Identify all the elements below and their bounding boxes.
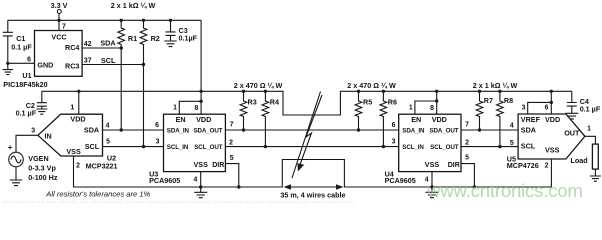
svg-text:R5: R5 [363, 97, 372, 106]
svg-text:5: 5 [230, 155, 234, 162]
svg-text:2: 2 [545, 163, 549, 170]
svg-text:5: 5 [106, 138, 110, 145]
wire 3.3V feed to U3 VDD [200, 20, 202, 114]
svg-text:0.1µF: 0.1µF [179, 33, 198, 42]
resistor R5 [355, 91, 372, 130]
node: SCL/R2 junction [142, 63, 145, 66]
svg-text:C1: C1 [16, 34, 25, 43]
svg-text:PCA9605: PCA9605 [149, 176, 180, 185]
svg-text:OUT: OUT [564, 129, 580, 138]
svg-text:EN: EN [411, 115, 421, 124]
node: 3.3V terminal junction [57, 19, 60, 22]
ground (C3) [164, 41, 176, 47]
wire SDA from U1 pin42 [82, 39, 121, 131]
svg-text:VREF: VREF [521, 115, 541, 124]
node: R3 rail junction [242, 90, 245, 93]
ground (U3 VSS) [194, 187, 207, 198]
svg-text:SCL_IN: SCL_IN [167, 144, 189, 151]
resistor R7 [476, 91, 493, 130]
svg-text:PCA9605: PCA9605 [385, 176, 416, 185]
resistor R2 [140, 20, 160, 64]
svg-text:VSS: VSS [425, 160, 440, 169]
svg-text:U1: U1 [22, 71, 31, 80]
node: R7 SDA junction [478, 128, 481, 131]
svg-text:3: 3 [522, 105, 526, 112]
node: U4 VDD rail junction [435, 90, 438, 93]
svg-text:MCP3221: MCP3221 [86, 161, 118, 170]
svg-text:www.cntronics.com: www.cntronics.com [426, 180, 583, 201]
node: U5 VREF/VDD junction [550, 101, 553, 104]
capacitor C4 [567, 91, 601, 113]
svg-text:5: 5 [510, 140, 514, 147]
wire SDA bus U2 to U3 [103, 129, 164, 131]
svg-text:VGEN: VGEN [28, 154, 48, 163]
svg-text:2: 2 [229, 140, 233, 147]
svg-text:2: 2 [465, 140, 469, 147]
mcu U1 PIC18F45k20 [3, 20, 82, 89]
node: R6 rail junction [382, 90, 385, 93]
svg-text:VSS: VSS [545, 146, 560, 155]
svg-text:VDD: VDD [196, 115, 211, 124]
svg-text:R7: R7 [484, 96, 493, 105]
svg-text:SCL_OUT: SCL_OUT [194, 144, 222, 151]
svg-text:All resistor's tolerances are: All resistor's tolerances are 1% [45, 189, 150, 198]
svg-text:4: 4 [106, 122, 110, 129]
resistor R4 [262, 91, 279, 146]
svg-text:1: 1 [409, 105, 413, 112]
node: U4 EN/VDD junction [435, 99, 438, 102]
node: R5 rail junction [357, 90, 360, 93]
node: U2 VDD rail junction [77, 90, 80, 93]
svg-text:7: 7 [62, 24, 66, 31]
U3 DIR stub [225, 164, 238, 187]
svg-text:8: 8 [430, 105, 434, 112]
svg-text:DIR: DIR [448, 162, 460, 169]
wire VGEN to U2 IN [16, 127, 38, 152]
load resistor [571, 144, 599, 169]
svg-text:2 x 1 kΩ ¼ W: 2 x 1 kΩ ¼ W [111, 1, 156, 10]
svg-text:SCL_OUT: SCL_OUT [430, 144, 458, 151]
U5 side pin labels [510, 123, 514, 147]
U3 VSS stub [193, 172, 200, 187]
svg-text:4: 4 [510, 123, 514, 130]
svg-text:1: 1 [173, 105, 177, 112]
svg-text:SCL: SCL [101, 56, 116, 65]
svg-text:RC3: RC3 [65, 62, 79, 71]
svg-text:7: 7 [230, 122, 234, 129]
svg-text:3: 3 [392, 139, 396, 146]
svg-text:35 m, 4 wires cable: 35 m, 4 wires cable [280, 190, 345, 199]
node: R6 SCL junction [382, 145, 385, 148]
wire VDD rail with cable dip [42, 91, 572, 115]
U4 pin1 EN bracket [409, 101, 437, 114]
ground (VGEN) [10, 167, 22, 186]
capacitor C2 [16, 91, 47, 117]
svg-text:VSS: VSS [194, 160, 209, 169]
resistor R8 [497, 91, 514, 146]
dac U5 MCP4726 [507, 114, 585, 170]
node: R1 rail junction [120, 19, 123, 22]
wire SCL from U1 pin37 [82, 56, 143, 147]
svg-text:EN: EN [176, 115, 186, 124]
node: VDD rail / U3 feed cross [199, 90, 202, 93]
svg-text:+: + [8, 143, 13, 152]
svg-text:0.1 µF: 0.1 µF [16, 108, 37, 117]
svg-text:0-3.3 Vp: 0-3.3 Vp [28, 164, 56, 173]
svg-text:1: 1 [70, 105, 74, 112]
U5 VDD feed [550, 91, 552, 114]
svg-text:SDA: SDA [521, 126, 536, 135]
node: U4 VSS gnd junction [430, 185, 433, 188]
svg-text:2 x 1 kΩ ¼ W: 2 x 1 kΩ ¼ W [473, 81, 518, 90]
U4 VSS stub [425, 172, 432, 187]
wire Load to ground [594, 169, 596, 176]
ground (C4) [565, 113, 578, 119]
wire 3.3V rail [8, 19, 201, 21]
svg-text:37: 37 [84, 57, 92, 64]
svg-text:SDA_OUT: SDA_OUT [430, 127, 459, 134]
svg-text:SDA_IN: SDA_IN [167, 127, 190, 134]
source VGEN [8, 143, 58, 182]
svg-text:4: 4 [193, 177, 197, 184]
U5 pin3 VREF bracket [522, 102, 552, 114]
svg-text:7: 7 [465, 122, 469, 129]
svg-text:1: 1 [587, 126, 591, 133]
svg-text:2 x 470 Ω ¼ W: 2 x 470 Ω ¼ W [234, 81, 283, 90]
buffer U4 PCA9605 [385, 114, 461, 185]
wire SCL bus U2 to U3 [103, 146, 164, 148]
svg-text:R8: R8 [504, 96, 513, 105]
svg-text:VDD: VDD [432, 115, 447, 124]
node: pin6/C1 junction [6, 62, 9, 65]
svg-text:SDA: SDA [100, 39, 115, 48]
svg-text:VSS: VSS [66, 147, 81, 156]
node: R8 SCL junction [498, 145, 501, 148]
svg-text:6: 6 [392, 122, 396, 129]
svg-text:SCL_IN: SCL_IN [402, 144, 424, 151]
U4 VDD feed [436, 91, 438, 114]
cable length dimension arrow [280, 184, 345, 199]
node: U3 DIR gnd junction [237, 185, 240, 188]
node: R2 rail junction [142, 19, 145, 22]
wire GND bus with cable rise [74, 156, 552, 187]
U4 side pin labels [392, 122, 470, 162]
svg-text:R3: R3 [248, 97, 257, 106]
cable break diagonals [292, 92, 321, 179]
U5 VSS stub [545, 159, 552, 187]
svg-text:8: 8 [194, 105, 198, 112]
node: U4 DIR gnd junction [473, 185, 476, 188]
svg-text:DIR: DIR [212, 162, 224, 169]
svg-text:SDA_IN: SDA_IN [402, 127, 425, 134]
svg-text:SDA_OUT: SDA_OUT [194, 127, 223, 134]
node: SCL drop junction [142, 145, 145, 148]
wire SCL bus U3 to U4 (cable) [225, 146, 398, 148]
svg-text:MCP4726: MCP4726 [507, 161, 539, 170]
ground (C1) [3, 70, 13, 75]
svg-text:IN: IN [45, 132, 52, 141]
capacitor C3 [166, 20, 198, 42]
svg-text:3.3 V: 3.3 V [51, 1, 68, 10]
svg-text:RC4: RC4 [65, 43, 79, 52]
svg-text:Load: Load [571, 156, 588, 165]
svg-text:6: 6 [155, 122, 159, 129]
buffer U3 PCA9605 [149, 114, 225, 185]
resistor R1 [118, 20, 137, 48]
ground (C2) [36, 109, 47, 114]
3.3V supply terminal [51, 1, 68, 20]
svg-text:0-100 Hz: 0-100 Hz [28, 173, 58, 182]
ground (U4 VSS) [426, 187, 439, 198]
wire SDA bus U4 to U5 [461, 129, 518, 131]
svg-text:R1: R1 [128, 34, 137, 43]
svg-text:VDD: VDD [70, 115, 85, 124]
svg-text:SCL: SCL [85, 142, 100, 151]
svg-text:www.cntronics.com www.cntronic: www.cntronics.com www.cntronics.com www.… [2, 200, 354, 205]
U2 pin4 pin5 labels [106, 122, 111, 145]
svg-text:PIC18F45k20: PIC18F45k20 [3, 80, 47, 89]
adc U2 MCP3221 [38, 91, 118, 170]
resistor R6 [380, 91, 397, 146]
resistor R3 [240, 91, 257, 130]
U4 DIR stub [461, 164, 474, 187]
wire U1 pin6 GND to C1 [8, 63, 35, 69]
wire SDA bus U3 to U4 (cable) [225, 129, 398, 131]
node: R8 rail junction [498, 90, 501, 93]
node: EN/VDD junction U3 [199, 100, 202, 103]
svg-text:5: 5 [465, 155, 469, 162]
svg-text:3: 3 [31, 127, 35, 134]
svg-text:R6: R6 [388, 97, 397, 106]
svg-text:0.1 µF: 0.1 µF [580, 105, 601, 114]
svg-text:SCL: SCL [521, 142, 536, 151]
capacitor C1 [3, 20, 33, 63]
node: U5 VDD rail junction [550, 90, 553, 93]
svg-text:SDA: SDA [84, 125, 99, 134]
svg-text:VDD: VDD [545, 115, 560, 124]
node: C3 rail junction [169, 19, 172, 22]
node: U3 VSS gnd junction [199, 185, 202, 188]
node: R4 rail junction [264, 90, 267, 93]
node: R4 SCL junction [264, 145, 267, 148]
svg-text:42: 42 [84, 41, 92, 48]
node: SDA/R1 junction [120, 46, 123, 49]
ground (Load) [590, 176, 601, 181]
node: R7 rail junction [478, 90, 481, 93]
svg-text:3: 3 [156, 139, 160, 146]
svg-text:VCC: VCC [51, 33, 66, 42]
svg-text:6: 6 [27, 56, 31, 63]
U3 pin1 EN bracket [173, 101, 201, 114]
lightning bolt [298, 95, 323, 172]
svg-text:6: 6 [545, 105, 549, 112]
svg-text:GND: GND [37, 60, 53, 69]
node: R3 SDA junction [242, 128, 245, 131]
svg-text:R4: R4 [270, 97, 279, 106]
node: SDA drop junction [120, 128, 123, 131]
svg-text:2: 2 [76, 163, 80, 170]
wire SCL bus U4 to U5 [461, 146, 518, 148]
node: R5 SDA junction [357, 128, 360, 131]
U3 side pin labels [155, 122, 234, 163]
svg-text:R2: R2 [151, 34, 160, 43]
svg-text:0.1 µF: 0.1 µF [11, 43, 32, 52]
wire U5 OUT to Load [585, 126, 596, 145]
svg-text:2 x 470 Ω ¼ W: 2 x 470 Ω ¼ W [347, 81, 396, 90]
